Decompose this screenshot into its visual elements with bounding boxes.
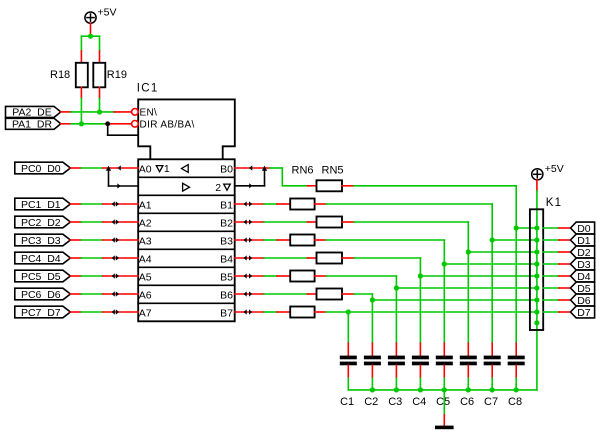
capacitor C5 xyxy=(436,356,453,408)
pin arrows A-side PC4_D4 xyxy=(112,255,119,260)
wire R18 bottom lead xyxy=(80,87,82,98)
wire net B6 from pin xyxy=(235,293,264,295)
svg-text:PA1_DR: PA1_DR xyxy=(12,119,52,131)
svg-text:C2: C2 xyxy=(364,396,378,408)
pin label A7 xyxy=(139,307,152,319)
svg-text:K1: K1 xyxy=(546,197,562,209)
svg-text:B3: B3 xyxy=(220,235,233,247)
pin EN\ bubble xyxy=(132,109,139,116)
ground xyxy=(435,426,454,430)
wire net D4 column xyxy=(419,258,421,343)
wire net PC7_D7 xyxy=(70,311,138,313)
junction K1 pin D7 xyxy=(534,309,539,314)
wire K1 pin 1 stub xyxy=(543,227,570,229)
wire R19 bottom lead xyxy=(99,87,101,98)
junction bus C8 xyxy=(514,387,519,392)
wire C5 top lead xyxy=(443,343,445,356)
IC1 gate2 direction triangle down xyxy=(224,184,231,190)
wire net PC2_D2 xyxy=(70,221,138,223)
power +5V supply symbol (top right) xyxy=(532,163,564,180)
wire net PC3_D3 xyxy=(70,239,138,241)
capacitor C6 xyxy=(460,356,477,408)
junction K1 pin D0 xyxy=(534,225,539,230)
svg-text:PC3_D3: PC3_D3 xyxy=(21,235,61,247)
svg-text:2: 2 xyxy=(215,182,221,194)
svg-text:B2: B2 xyxy=(220,217,233,229)
junction bus C4 xyxy=(418,387,423,392)
wire C3 bottom lead xyxy=(395,365,397,390)
pin arrows A-side PC3_D3 xyxy=(112,237,119,242)
wire C2 top lead xyxy=(371,343,373,356)
svg-text:PC1_D1: PC1_D1 xyxy=(21,199,61,211)
svg-text:B4: B4 xyxy=(220,253,233,265)
pin label A0 xyxy=(139,163,152,175)
pin arrows B-side B5 xyxy=(244,273,253,278)
IC1 gate block outline xyxy=(138,159,235,321)
resistor RN5 element B4 xyxy=(317,253,343,264)
pin arrows B-side B2 xyxy=(244,219,253,224)
wire net PA2_DE xyxy=(61,111,132,113)
svg-text:C7: C7 xyxy=(484,396,498,408)
net label D3 xyxy=(571,258,595,271)
pin number 2 xyxy=(215,182,221,194)
wire net D4 row xyxy=(342,257,420,259)
wire net B1 to resistor xyxy=(264,203,290,205)
junction PA1_DR/DIR tap xyxy=(105,121,110,126)
wire R19 to PA2_DE net xyxy=(99,99,101,113)
net label PC5_D5 xyxy=(15,270,71,283)
wire R19 top lead xyxy=(99,51,101,63)
junction K1 pin D3 xyxy=(534,261,539,266)
resistor network RN6 label xyxy=(292,164,314,176)
svg-text:B0: B0 xyxy=(220,163,233,175)
wire K1 pin 5 stub xyxy=(543,275,570,277)
IC1 gate1 buffer triangle left xyxy=(182,165,189,173)
IC IC1 reference label xyxy=(137,82,159,94)
wire net D2 column xyxy=(467,222,469,343)
junction D5 pin tap xyxy=(394,285,399,290)
pin label B0 xyxy=(220,163,233,175)
junction D0 pin tap xyxy=(514,225,519,230)
net label PC1_D1 xyxy=(15,198,71,211)
pin arrows A-side PC5_D5 xyxy=(112,273,119,278)
pin label A3 xyxy=(139,235,152,247)
svg-text:PC5_D5: PC5_D5 xyxy=(21,271,61,283)
svg-text:B5: B5 xyxy=(220,271,233,283)
wire net D1 to K1 xyxy=(492,239,537,241)
svg-text:A5: A5 xyxy=(139,271,152,283)
svg-text:B1: B1 xyxy=(220,199,233,211)
wire C1 top lead xyxy=(347,343,349,356)
svg-text:C8: C8 xyxy=(508,396,522,408)
pin label B6 xyxy=(220,289,233,301)
wire R18 to PA1_DR net xyxy=(80,99,82,124)
junction R19/PA2_DE xyxy=(97,109,102,114)
IC1 gate1 direction triangle down xyxy=(156,166,163,172)
wire net D5 to K1 xyxy=(396,287,537,289)
wire net D6 to K1 xyxy=(372,299,537,301)
wire C2 bottom lead xyxy=(371,365,373,390)
pin label A6 xyxy=(139,289,152,301)
junction bus C2 xyxy=(370,387,375,392)
wire net PC4_D4 xyxy=(70,257,138,259)
resistor network RN5 label xyxy=(322,164,344,176)
pin arrow B0 xyxy=(249,165,252,170)
wire net D7 row to K1 xyxy=(315,311,537,313)
net label D6 xyxy=(571,294,595,307)
wire net PC1_D1 xyxy=(70,203,138,205)
junction D4 pin tap xyxy=(418,273,423,278)
svg-text:PA2_DE: PA2_DE xyxy=(12,107,52,119)
svg-text:B6: B6 xyxy=(220,289,233,301)
pin label EN\ xyxy=(140,108,158,119)
svg-text:1: 1 xyxy=(164,163,170,175)
wire net B7 from pin xyxy=(235,311,264,313)
svg-text:A0: A0 xyxy=(139,163,152,175)
wire C7 top lead xyxy=(491,343,493,356)
wire net D4 to K1 xyxy=(420,275,537,277)
svg-text:PC7_D7: PC7_D7 xyxy=(21,307,61,319)
svg-text:A1: A1 xyxy=(139,199,152,211)
svg-text:C4: C4 xyxy=(412,396,426,408)
net label D5 xyxy=(571,282,595,295)
wire K1 pin 4 stub xyxy=(543,263,570,265)
junction bus C5 xyxy=(442,387,447,392)
svg-text:RN5: RN5 xyxy=(322,164,344,176)
IC1 gate block row dividers xyxy=(138,177,235,303)
svg-text:EN\: EN\ xyxy=(140,108,158,119)
net label PC6_D6 xyxy=(15,288,71,301)
wire +5V rail to resistors xyxy=(81,36,99,51)
pin arrows A-side PC7_D7 xyxy=(112,309,119,314)
junction K1 pin D5 xyxy=(534,285,539,290)
junction K1 pin D1 xyxy=(534,237,539,242)
wire net D0 resistor lead xyxy=(342,185,354,187)
pin label A4 xyxy=(139,253,152,265)
net label PC2_D2 xyxy=(15,216,71,229)
pin arrow net PC0_D0 xyxy=(118,165,121,170)
resistor RN6 element B5 xyxy=(290,271,314,282)
resistor R18 xyxy=(50,63,88,88)
wire net D0 to K1 xyxy=(516,227,537,229)
wire net PC5_D5 xyxy=(70,275,138,277)
junction bus C7 xyxy=(490,387,495,392)
connector K1 reference label xyxy=(546,197,562,209)
wire PC0_D0 tap to gate2 A-side xyxy=(109,168,139,189)
svg-text:PC6_D6: PC6_D6 xyxy=(21,289,61,301)
svg-text:C6: C6 xyxy=(460,396,474,408)
wire DIR tap to IC1 xyxy=(108,124,139,135)
wire net B2 to resistor xyxy=(264,221,317,223)
wire C4 bottom lead xyxy=(419,365,421,390)
resistor RN5 element B0 xyxy=(317,180,343,191)
wire net D5 column xyxy=(395,276,397,343)
resistor R19 xyxy=(93,63,127,88)
wire net D5 row xyxy=(315,275,397,277)
svg-text:C3: C3 xyxy=(388,396,402,408)
IC1 control block outline xyxy=(138,99,235,159)
pin label B7 xyxy=(220,307,233,319)
capacitor C4 xyxy=(412,356,429,408)
wire net D0 to column xyxy=(354,186,516,343)
wire net D2 row xyxy=(342,221,468,223)
net label PC7_D7 xyxy=(15,306,71,319)
svg-text:A6: A6 xyxy=(139,289,152,301)
svg-text:D7: D7 xyxy=(577,307,591,319)
svg-text:A3: A3 xyxy=(139,235,152,247)
wire net B1 from pin xyxy=(235,203,264,205)
resistor RN6 element B3 xyxy=(290,235,314,246)
junction D1 pin tap xyxy=(490,237,495,242)
pin arrows A-side PC2_D2 xyxy=(112,219,119,224)
junction D6 pin tap xyxy=(370,297,375,302)
net label D2 xyxy=(571,246,595,259)
resistor RN5 element B2 xyxy=(317,217,343,228)
junction PC0_D0 tap arrow xyxy=(106,166,111,171)
resistor RN6 element B1 xyxy=(290,199,314,210)
net label D0 xyxy=(571,222,595,235)
wire net B4 from pin xyxy=(235,257,264,259)
junction D7 capacitor tap xyxy=(346,309,351,314)
svg-text:DIR AB/BA\: DIR AB/BA\ xyxy=(140,120,195,131)
wire net D6 row xyxy=(342,293,372,295)
pin arrows A-side PC1_D1 xyxy=(112,201,119,206)
wire ground bus xyxy=(348,389,537,391)
svg-text:PC2_D2: PC2_D2 xyxy=(21,217,61,229)
pin label A2 xyxy=(139,217,152,229)
junction K1 pin D2 xyxy=(534,249,539,254)
wire C7 bottom lead xyxy=(491,365,493,390)
wire K1 pin 7 stub xyxy=(543,299,570,301)
wire ground stub xyxy=(443,390,445,426)
net label PA1_DR xyxy=(6,118,61,130)
pin label B2 xyxy=(220,217,233,229)
wire net B4 to resistor xyxy=(264,257,317,259)
junction K1 pin D6 xyxy=(534,297,539,302)
junction R18/PA1_DR xyxy=(79,121,84,126)
capacitor C7 xyxy=(484,356,501,408)
wire net D1 row xyxy=(315,203,493,205)
net label D4 xyxy=(571,270,595,283)
pin arrows B-side B4 xyxy=(244,255,253,260)
wire net B0 from pin B0 xyxy=(235,167,270,169)
IC1 gate2 buffer triangle right xyxy=(183,183,190,191)
wire R18 top lead xyxy=(80,51,82,63)
wire C5 bottom lead xyxy=(443,365,445,390)
wire K1 pin 6 stub xyxy=(543,287,570,289)
wire C6 bottom lead xyxy=(467,365,469,390)
wire C6 top lead xyxy=(467,343,469,356)
pin arrows B-side B6 xyxy=(244,291,253,296)
wire K1 pin 3 stub xyxy=(543,251,570,253)
svg-text:C1: C1 xyxy=(340,396,354,408)
capacitor C3 xyxy=(388,356,405,408)
wire net B0 jog down xyxy=(270,168,307,186)
junction K1 pin D4 xyxy=(534,273,539,278)
svg-text:R18: R18 xyxy=(50,69,70,81)
svg-text:PC0_D0: PC0_D0 xyxy=(21,163,61,175)
wire net B0 resistor lead xyxy=(308,185,317,187)
net label D1 xyxy=(571,234,595,247)
wire C4 top lead xyxy=(419,343,421,356)
net label PC3_D3 xyxy=(15,234,71,247)
junction bus C6 xyxy=(466,387,471,392)
pin label A1 xyxy=(139,199,152,211)
svg-text:RN6: RN6 xyxy=(292,164,314,176)
wire net D7 capacitor drop xyxy=(347,312,349,343)
wire net B6 to resistor xyxy=(264,293,317,295)
junction B0 tap arrow xyxy=(262,166,267,171)
connector K1 outline xyxy=(530,209,543,330)
pin arrows A-side PC6_D6 xyxy=(112,291,119,296)
svg-text:IC1: IC1 xyxy=(137,82,159,94)
wire net D3 to K1 xyxy=(444,263,537,265)
net label PC0_D0 xyxy=(15,162,71,175)
wire net B5 to resistor xyxy=(264,275,290,277)
power +5V supply symbol (top left) xyxy=(85,7,117,24)
wire net D1 column xyxy=(491,204,493,343)
capacitor C2 xyxy=(364,356,381,408)
junction bus C3 xyxy=(394,387,399,392)
svg-text:A2: A2 xyxy=(139,217,152,229)
wire net D3 column xyxy=(443,240,445,343)
wire net B7 to resistor xyxy=(264,311,290,313)
pin label B4 xyxy=(220,253,233,265)
junction +5V node xyxy=(88,34,93,39)
capacitor C8 xyxy=(508,356,525,408)
wire K1 pin 8 stub xyxy=(543,311,570,313)
svg-text:A4: A4 xyxy=(139,253,152,265)
pin label B3 xyxy=(220,235,233,247)
net label PC4_D4 xyxy=(15,252,71,265)
wire net B3 to resistor xyxy=(264,239,290,241)
capacitor C1 xyxy=(340,356,357,408)
pin arrows B-side B3 xyxy=(244,237,253,242)
resistor RN5 element B6 xyxy=(317,289,343,300)
wire net D2 to K1 xyxy=(468,251,537,253)
wire K1 pin 2 stub xyxy=(543,239,570,241)
pin DIR bubble xyxy=(132,121,139,128)
svg-text:PC4_D4: PC4_D4 xyxy=(21,253,61,265)
wire +5V stub xyxy=(90,23,92,36)
svg-text:+5V: +5V xyxy=(545,163,564,175)
pin arrows B-side B1 xyxy=(244,201,253,206)
wire net PC0_D0 xyxy=(70,167,138,169)
wire B0 tap to gate2 B-side xyxy=(235,168,265,188)
junction D3 pin tap xyxy=(442,261,447,266)
pin label B5 xyxy=(220,271,233,283)
svg-text:B7: B7 xyxy=(220,307,233,319)
pin label A5 xyxy=(139,271,152,283)
wire C8 top lead xyxy=(515,343,517,356)
wire net D3 row xyxy=(315,239,445,241)
wire net B3 from pin xyxy=(235,239,264,241)
svg-text:C5: C5 xyxy=(436,396,450,408)
svg-text:+5V: +5V xyxy=(98,7,117,19)
wire net D6 column xyxy=(371,294,373,343)
wire net PA1_DR xyxy=(61,123,132,125)
pin arrows B-side B7 xyxy=(244,309,253,314)
resistor RN6 element B7 xyxy=(290,307,314,318)
pin label B1 xyxy=(220,199,233,211)
wire net B5 from pin xyxy=(235,275,264,277)
svg-text:R19: R19 xyxy=(107,69,127,81)
pin number 1 xyxy=(164,163,170,175)
wire C3 top lead xyxy=(395,343,397,356)
pin label DIR AB/BA\ xyxy=(140,120,195,131)
wire +5V to K1 xyxy=(536,180,538,191)
wire net B2 from pin xyxy=(235,221,264,223)
wire net PC6_D6 xyxy=(70,293,138,295)
net label PA2_DE xyxy=(6,106,61,118)
svg-text:A7: A7 xyxy=(139,307,152,319)
wire C8 bottom lead xyxy=(515,365,517,390)
wire K1 spine xyxy=(536,191,538,390)
wire C1 bottom lead xyxy=(347,365,349,390)
junction K1 bottom pin xyxy=(534,320,539,325)
net label D7 xyxy=(571,306,595,319)
junction D2 pin tap xyxy=(466,249,471,254)
